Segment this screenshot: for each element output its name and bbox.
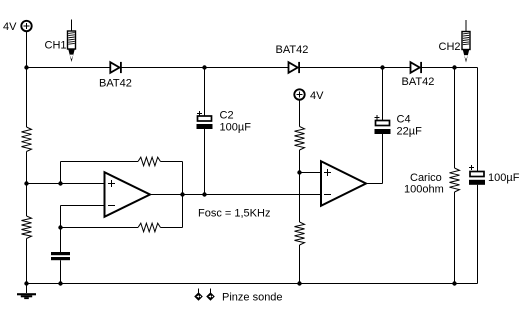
svg-text:100µF: 100µF bbox=[488, 172, 520, 184]
svg-text:4V: 4V bbox=[3, 21, 17, 33]
svg-text:4V: 4V bbox=[310, 90, 324, 102]
svg-text:C2: C2 bbox=[220, 110, 234, 122]
svg-text:CH1: CH1 bbox=[45, 40, 67, 52]
svg-text:BAT42: BAT42 bbox=[402, 76, 435, 88]
svg-text:Pinze sonde: Pinze sonde bbox=[222, 292, 283, 304]
svg-text:CH2: CH2 bbox=[439, 41, 461, 53]
svg-text:Fosc = 1,5KHz: Fosc = 1,5KHz bbox=[198, 208, 270, 220]
svg-text:C4: C4 bbox=[397, 114, 411, 126]
svg-text:Carico: Carico bbox=[410, 172, 442, 184]
svg-text:100µF: 100µF bbox=[220, 122, 252, 134]
svg-text:100ohm: 100ohm bbox=[404, 184, 444, 196]
svg-text:BAT42: BAT42 bbox=[99, 78, 132, 90]
svg-text:BAT42: BAT42 bbox=[276, 44, 309, 56]
svg-text:22µF: 22µF bbox=[397, 126, 423, 138]
